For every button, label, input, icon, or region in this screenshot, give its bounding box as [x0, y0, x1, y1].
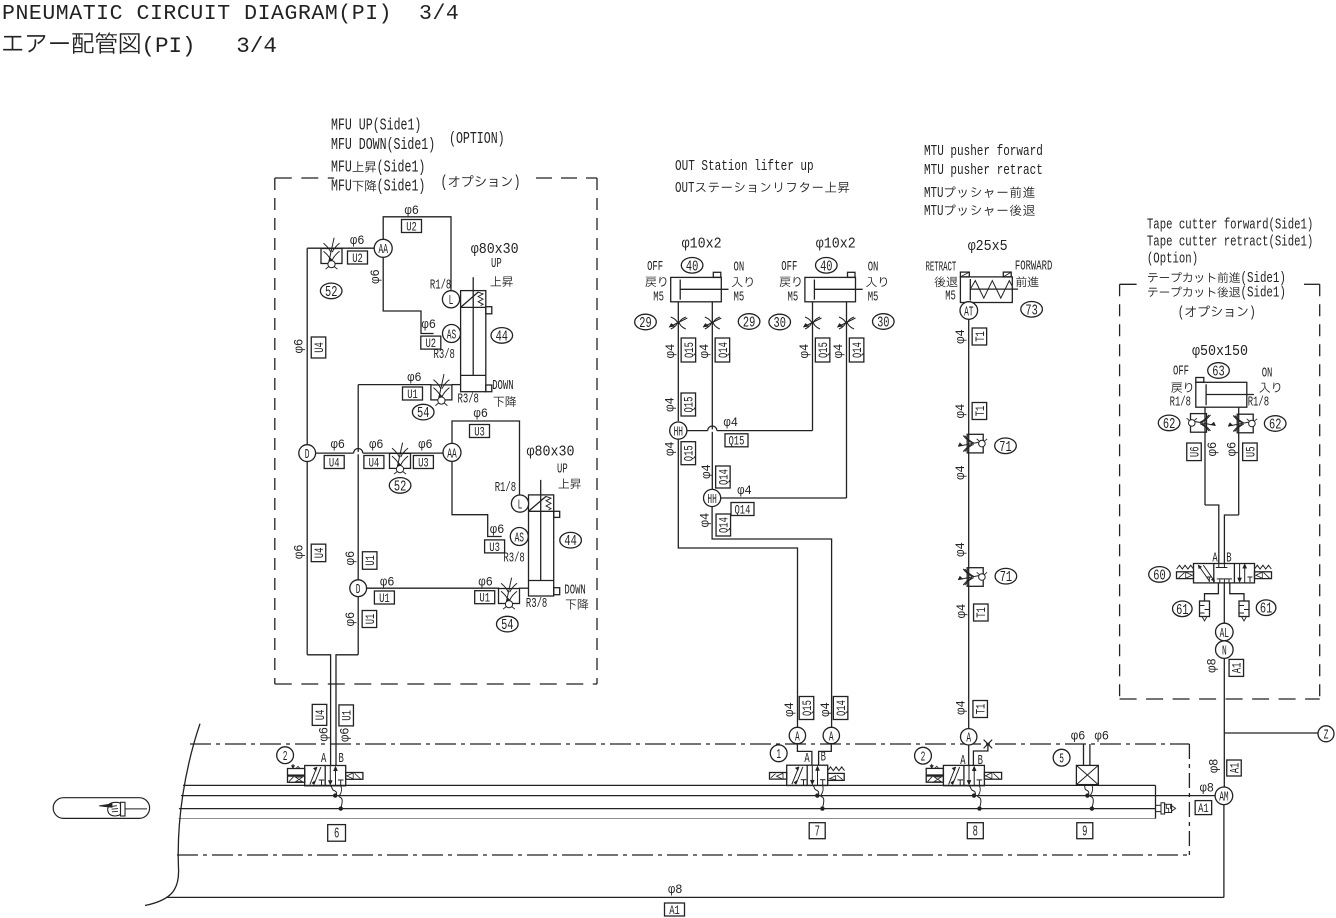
cylinder 44b brake box — [529, 510, 554, 512]
label Q15 (HH1 wire) — [725, 434, 748, 447]
svg-text:Tape cutter forward(Side1): Tape cutter forward(Side1) — [1147, 218, 1313, 234]
svg-text:ON: ON — [1262, 366, 1273, 381]
svg-text:φ6: φ6 — [344, 612, 358, 626]
node AA (44a up line) — [374, 239, 392, 257]
pipe HH1 branch down to valve7 A — [678, 439, 797, 727]
svg-text:MTU pusher retract: MTU pusher retract — [924, 161, 1043, 179]
valve 7 drain squiggles — [812, 785, 818, 796]
svg-text:AM: AM — [1219, 790, 1228, 806]
boxed 9 — [1077, 823, 1093, 839]
pipe valve60 exhaust left to muffler — [1205, 583, 1219, 601]
svg-text:HH: HH — [707, 492, 716, 508]
svg-text:U5: U5 — [1243, 446, 1258, 457]
svg-text:φ4: φ4 — [954, 329, 968, 343]
cylinder 73 notch right — [1003, 272, 1011, 277]
svg-text:φ8: φ8 — [1200, 782, 1214, 796]
label 後退 — [935, 276, 946, 287]
svg-text:B: B — [821, 751, 826, 766]
svg-text:MFU UP(Side1): MFU UP(Side1) — [331, 116, 421, 134]
svg-text:): ) — [513, 173, 520, 192]
cylinder 44b piston — [529, 580, 554, 582]
valve7 B pipe jog — [819, 744, 832, 766]
svg-text:U6: U6 — [1187, 446, 1202, 457]
flow control valve 54b — [499, 589, 520, 604]
port L (44a rod lock) — [442, 291, 459, 308]
hand pointer symbol — [99, 804, 112, 808]
svg-text:73: 73 — [1025, 303, 1037, 319]
svg-text:L: L — [518, 497, 523, 513]
svg-text:AA: AA — [379, 242, 389, 258]
pipe valve60 exhaust right to muffler — [1230, 583, 1244, 601]
wire AA top loop — [383, 217, 451, 291]
svg-text:T1: T1 — [973, 406, 988, 417]
svg-text:B: B — [1226, 551, 1231, 566]
label U2 (AS wire) — [421, 336, 441, 349]
circled 73 — [1021, 302, 1043, 318]
svg-text:φ4: φ4 — [954, 542, 968, 556]
valve8 B pipe to plug — [973, 744, 988, 765]
svg-text:AA: AA — [447, 446, 457, 462]
circled 2 (valve 8) — [915, 747, 932, 764]
svg-text:UP: UP — [557, 463, 568, 478]
svg-text:φ4: φ4 — [832, 344, 846, 358]
pipe 40a left port — [677, 302, 679, 340]
svg-text:40: 40 — [820, 259, 832, 275]
flow control valve 62a — [1191, 414, 1207, 433]
svg-text:U4: U4 — [329, 455, 340, 470]
svg-text:φ6: φ6 — [380, 576, 394, 590]
label 下降 (44a) — [494, 397, 504, 407]
svg-text:φ4: φ4 — [819, 702, 833, 716]
cylinder 73 piston — [969, 279, 971, 301]
svg-text:MFU DOWN(Side1): MFU DOWN(Side1) — [331, 136, 435, 154]
label Q14 (40b right drop) — [849, 338, 864, 362]
label 戻り (b) — [780, 277, 791, 287]
svg-text:T1: T1 — [974, 704, 989, 715]
svg-text:φ50x150: φ50x150 — [1192, 344, 1248, 360]
svg-text:A: A — [795, 729, 800, 745]
svg-text:U1: U1 — [363, 555, 378, 566]
svg-text:φ4: φ4 — [700, 464, 714, 478]
svg-text:M5: M5 — [734, 291, 745, 306]
valve 8 body — [943, 765, 984, 785]
flow control valve 71a — [967, 434, 983, 453]
cylinder 63 notch — [1196, 378, 1204, 383]
svg-text:φ6: φ6 — [407, 371, 421, 385]
label Q14 (40a right mid) — [716, 466, 731, 488]
svg-text:Q14: Q14 — [850, 342, 865, 358]
svg-text:φ6: φ6 — [1206, 442, 1220, 456]
svg-text:54: 54 — [501, 618, 514, 634]
svg-text:U1: U1 — [363, 614, 378, 625]
svg-text:L: L — [449, 293, 454, 309]
valve 6 pilot — [288, 769, 305, 776]
cylinder 40b piston — [813, 280, 815, 300]
svg-text:φ8: φ8 — [668, 883, 682, 897]
label U4 (D wire 2) — [364, 456, 384, 469]
valve 8 drain squiggles — [969, 786, 975, 796]
circled 2 (valve 6) — [277, 747, 294, 764]
cylinder 40b rod — [814, 288, 862, 290]
label U1 (54a) — [403, 387, 423, 400]
svg-text:φ6: φ6 — [1095, 730, 1109, 744]
svg-text:62: 62 — [1163, 417, 1175, 433]
svg-text:φ6: φ6 — [338, 728, 352, 742]
svg-text:Q15: Q15 — [682, 445, 697, 461]
circled 40 (a) — [681, 258, 703, 274]
cylinder 73 spring — [970, 281, 1012, 299]
label Q14 (HH2 wire) — [731, 503, 754, 516]
svg-text:(PI) 3/4: (PI) 3/4 — [141, 34, 277, 59]
label テープカット後退(Side1) — [1148, 288, 1158, 297]
label 戻り (63) — [1171, 383, 1182, 393]
label U6 (62a) — [1187, 443, 1202, 461]
svg-text:φ4: φ4 — [724, 416, 738, 430]
label T1 (MTU 6) — [973, 701, 988, 718]
svg-text:MFU: MFU — [331, 158, 352, 177]
valve 7 spring return — [828, 767, 845, 771]
port L (44b) — [511, 495, 528, 512]
flow control valve 54a — [431, 385, 452, 400]
label T1 (MTU 5) — [974, 604, 989, 621]
label 下降 (44b) — [566, 599, 576, 609]
circled 30 left (b) — [769, 314, 791, 330]
node A (valve7 right) — [823, 727, 839, 743]
svg-text:7: 7 — [815, 824, 820, 840]
wire MFU U-turn to manifold pipes — [307, 655, 330, 766]
comp 9 double pipe — [1083, 744, 1085, 765]
svg-text:U1: U1 — [340, 710, 355, 721]
circled 40 (b) — [816, 258, 838, 274]
label U4 (MFU drop) — [312, 704, 327, 725]
svg-text:A1: A1 — [669, 903, 680, 918]
wire branch to Z — [1224, 732, 1318, 734]
svg-text:Q15: Q15 — [682, 342, 697, 358]
svg-text:φ4: φ4 — [664, 441, 678, 455]
svg-text:U2: U2 — [406, 219, 417, 234]
circled 1 (valve 7) — [770, 745, 787, 762]
svg-text:φ6: φ6 — [418, 438, 432, 452]
svg-text:φ6: φ6 — [350, 234, 364, 248]
svg-text:U1: U1 — [379, 591, 390, 606]
svg-text:): ) — [1249, 304, 1256, 322]
circled 29 left (a) — [635, 314, 657, 330]
node A (valve7 left) — [789, 727, 805, 743]
node D (left riser) — [299, 445, 316, 462]
label A1 (bottom) — [665, 903, 685, 916]
svg-text:R3/8: R3/8 — [434, 348, 455, 363]
svg-text:A: A — [829, 729, 834, 745]
svg-text:R3/8: R3/8 — [526, 597, 547, 612]
svg-text:62: 62 — [1269, 418, 1281, 434]
svg-text:φ6: φ6 — [490, 523, 504, 537]
pipe N down to Z branch — [1223, 658, 1225, 787]
svg-text:30: 30 — [877, 316, 889, 332]
circled 54 (lower) — [497, 616, 519, 632]
svg-text:U3: U3 — [418, 455, 429, 470]
svg-text:2: 2 — [921, 750, 926, 766]
svg-text:φ6: φ6 — [369, 438, 383, 452]
cylinder 73 rod — [970, 288, 1018, 290]
svg-text:A: A — [966, 731, 971, 747]
svg-text:D: D — [356, 582, 361, 598]
cylinder 44a DOWN port tab — [486, 385, 492, 392]
cylinder 40a piston — [679, 280, 681, 300]
svg-text:(Side1): (Side1) — [1241, 284, 1286, 302]
svg-text:Q14: Q14 — [716, 469, 731, 485]
svg-text:φ6: φ6 — [293, 545, 307, 559]
label Q15 (valve7 A pipe) — [799, 697, 814, 720]
label A1 (tape drop) — [1229, 659, 1244, 676]
label Q14 (40a right drop) — [715, 338, 730, 362]
boxed 6 — [328, 825, 346, 842]
svg-text:φ6: φ6 — [369, 269, 383, 283]
svg-text:Q15: Q15 — [816, 342, 831, 358]
svg-text:M5: M5 — [653, 291, 664, 306]
muffler 61 right — [1239, 601, 1249, 617]
svg-text:U4: U4 — [369, 455, 380, 470]
label U1 (center riser upper) — [362, 552, 377, 570]
manifold right end cap — [1155, 785, 1157, 818]
svg-text:Q14: Q14 — [735, 502, 751, 517]
pipe 40a right port — [711, 302, 713, 340]
pipe MTU main drop — [968, 319, 970, 728]
cylinder 40a notch — [713, 272, 721, 277]
pipe HH2 branch down to valve7 B — [712, 507, 832, 727]
svg-text:Q14: Q14 — [716, 342, 731, 358]
svg-text:2: 2 — [283, 749, 288, 765]
svg-text:φ25x5: φ25x5 — [968, 239, 1008, 255]
flow control valve 52b — [390, 453, 411, 468]
cylinder 44a UP port tab — [486, 307, 492, 314]
svg-text:R1/8: R1/8 — [495, 481, 516, 496]
svg-text:φ4: φ4 — [737, 484, 751, 498]
node Z (right edge) — [1318, 726, 1334, 742]
svg-text:A1: A1 — [1230, 663, 1245, 674]
circled 61 right — [1256, 600, 1276, 616]
wire 54b to cylinder 44b — [519, 587, 529, 589]
svg-text:52: 52 — [394, 479, 406, 495]
flow control valve 71b — [967, 568, 983, 587]
cylinder 63 piston — [1205, 384, 1207, 405]
svg-text:6: 6 — [334, 827, 339, 843]
svg-text:U1: U1 — [479, 591, 490, 606]
svg-text:(: ( — [1178, 304, 1185, 322]
svg-text:Q14: Q14 — [717, 517, 732, 533]
manifold dash-dot enclosure right — [1188, 744, 1190, 855]
label U1 (MFU drop) — [339, 705, 354, 726]
label U2 (top loop) — [402, 220, 422, 233]
svg-text:U4: U4 — [312, 342, 327, 353]
wire 54a to cylinder 44a — [451, 384, 460, 386]
title line 2 (Japanese) — [3, 36, 22, 51]
boxed 7 — [809, 823, 825, 839]
svg-text:(Option): (Option) — [1147, 252, 1198, 268]
restrictor (b left) — [805, 317, 812, 329]
valve 7 pilot solenoid — [770, 773, 787, 780]
label Q15 (HH1 below) — [681, 442, 696, 465]
svg-text:44: 44 — [496, 329, 509, 345]
valve 60 center cell blocked ports — [1218, 564, 1220, 568]
pipe 40b left port — [812, 302, 814, 340]
svg-text:φ6: φ6 — [422, 318, 436, 332]
svg-text:FORWARD: FORWARD — [1015, 260, 1052, 275]
svg-text:HH: HH — [674, 424, 683, 440]
muffler 61 left — [1200, 601, 1210, 617]
node AM — [1215, 787, 1233, 805]
label T1 (MTU 1) — [972, 328, 987, 345]
svg-text:φ4: φ4 — [798, 344, 812, 358]
label テープカット前進(Side1) — [1148, 273, 1158, 282]
svg-text:M5: M5 — [788, 291, 799, 306]
circled 61 left — [1173, 601, 1193, 617]
rail2 extension to AM — [1156, 795, 1216, 797]
svg-text:71: 71 — [999, 440, 1012, 456]
valve 6 solenoid — [346, 773, 363, 780]
node HH (Q15 junction) — [670, 422, 687, 439]
comp 9 X box — [1076, 765, 1098, 784]
svg-text:63: 63 — [1212, 365, 1224, 381]
restrictor (a right) — [705, 317, 712, 329]
svg-text:AS: AS — [447, 327, 456, 343]
tape cutter dashed enclosure — [1120, 283, 1139, 285]
svg-text:U2: U2 — [426, 336, 437, 351]
svg-text:Q14: Q14 — [834, 700, 849, 716]
svg-text:DOWN: DOWN — [492, 379, 513, 394]
svg-text:ON: ON — [868, 261, 879, 276]
circled 63 — [1208, 363, 1230, 379]
label U1 (D2 wire) — [374, 591, 394, 604]
svg-text:φ4: φ4 — [955, 700, 969, 714]
svg-text:52: 52 — [325, 285, 337, 301]
svg-text:UP: UP — [491, 257, 502, 272]
node AA (44b) — [443, 443, 461, 461]
rail 3 — [179, 808, 1156, 810]
cylinder 44a piston — [461, 374, 486, 376]
wire left riser lower — [306, 462, 308, 655]
label 上昇 (upper cylinder) — [491, 276, 502, 286]
svg-text:T1: T1 — [974, 607, 989, 618]
circled 44 (lower) — [560, 532, 582, 548]
cylinder 40a body (phi10x2) — [671, 277, 722, 301]
svg-text:U1: U1 — [407, 387, 418, 402]
label 上昇 (44b) — [559, 478, 570, 488]
svg-text:(Side1): (Side1) — [377, 177, 426, 196]
rail 4 (gray) — [179, 818, 1156, 820]
wire center riser (U1) — [357, 385, 359, 655]
wire AA2 to AS2 — [452, 461, 502, 536]
wire AA to AS — [383, 257, 433, 333]
svg-text:R1/8: R1/8 — [1248, 396, 1269, 411]
svg-text:T1: T1 — [973, 331, 988, 342]
restrictor (a left) — [671, 317, 678, 329]
svg-text:A1: A1 — [1227, 763, 1242, 774]
svg-text:φ4: φ4 — [698, 513, 712, 527]
manifold dash-dot enclosure bottom — [177, 854, 1189, 856]
valve 60 left cell arrows — [1198, 565, 1209, 581]
circled 54 (upper) — [412, 404, 434, 420]
label U1 (54b) — [475, 591, 495, 604]
MFU option dashed enclosure — [275, 177, 334, 179]
svg-text:φ6: φ6 — [1226, 442, 1240, 456]
cylinder 44a brake box — [461, 306, 486, 308]
svg-text:φ8: φ8 — [1208, 759, 1222, 773]
pipe 40b right port — [846, 302, 848, 340]
svg-text:40: 40 — [686, 259, 698, 275]
svg-text:Z: Z — [1324, 728, 1329, 744]
cylinder 63 body (phi50x150) — [1196, 382, 1247, 407]
cylinder 40a rod — [680, 288, 728, 290]
bottom main phi8 line — [167, 896, 1224, 898]
circled 5 — [1053, 749, 1070, 766]
label Q14 (HH2 below) — [716, 514, 731, 536]
label 前進 — [1016, 276, 1026, 287]
node A (valve8) — [961, 729, 977, 745]
valve 6 drain squiggles — [330, 786, 336, 796]
svg-text:AT: AT — [964, 304, 973, 320]
svg-text:φ4: φ4 — [954, 465, 968, 479]
valve 60 body (5/3) — [1194, 564, 1255, 583]
cylinder 44a rod — [472, 277, 474, 375]
cylinder 40b notch — [848, 272, 856, 277]
valve 7 body — [787, 765, 828, 785]
cylinder 44a body (phi80x30 upper) — [461, 291, 486, 392]
svg-text:N: N — [1222, 643, 1227, 659]
restrictor (b right) — [839, 317, 846, 329]
circled 62 right — [1264, 416, 1286, 432]
svg-text:OFF: OFF — [647, 260, 663, 275]
svg-text:φ4: φ4 — [955, 604, 969, 618]
cylinder 40b body (phi10x2) — [805, 277, 856, 301]
svg-text:Tape cutter retract(Side1): Tape cutter retract(Side1) — [1147, 235, 1313, 251]
pipe 63 right port — [1238, 407, 1240, 515]
svg-text:60: 60 — [1153, 568, 1165, 584]
label U4 (left riser upper) — [311, 337, 326, 358]
svg-text:1: 1 — [776, 747, 781, 763]
pipe 40a left down to HH1 — [677, 340, 679, 421]
cylinder 44b UP port tab — [554, 511, 560, 517]
label Q14 (valve7 B pipe) — [833, 697, 848, 720]
flow control valve 52a — [321, 249, 342, 264]
cylinder 63 rod — [1206, 394, 1254, 396]
svg-text:U3: U3 — [489, 540, 500, 555]
svg-text:φ6: φ6 — [293, 339, 307, 353]
manifold dash-dot enclosure top — [190, 743, 1189, 745]
node AL — [1216, 623, 1234, 641]
circled 52 (upper) — [320, 283, 342, 299]
svg-text:(OPTION): (OPTION) — [449, 130, 505, 148]
svg-text:ON: ON — [734, 261, 745, 276]
svg-text:M5: M5 — [868, 291, 879, 306]
label U3 (44b loop) — [470, 425, 490, 438]
svg-text:71: 71 — [1000, 570, 1013, 586]
svg-text:φ6: φ6 — [1071, 730, 1085, 744]
valve 8 solenoid — [984, 772, 1001, 779]
pipe 40a right down to HH2 — [711, 340, 713, 489]
svg-text:Q15: Q15 — [729, 434, 745, 449]
svg-text:φ6: φ6 — [344, 551, 358, 565]
node AS (44b) — [510, 528, 528, 546]
svg-text:φ8: φ8 — [1206, 658, 1220, 672]
svg-text:φ10x2: φ10x2 — [816, 237, 856, 253]
label U4 (left riser lower) — [311, 544, 326, 562]
label Q15 (40a left drop) — [681, 338, 696, 362]
svg-text:U4: U4 — [313, 710, 328, 721]
node HH (Q14 junction) — [704, 489, 721, 506]
pipe 63 left port — [1204, 407, 1206, 505]
manifold end coupling — [1156, 804, 1162, 806]
hand pointer stadium — [53, 798, 149, 819]
